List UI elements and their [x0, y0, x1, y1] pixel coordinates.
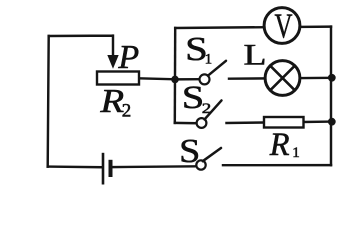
- svg-text:2: 2: [202, 101, 212, 117]
- svg-text:P: P: [117, 39, 139, 76]
- svg-text:R: R: [99, 83, 124, 120]
- svg-text:S: S: [179, 133, 200, 170]
- svg-text:1: 1: [292, 145, 300, 161]
- svg-text:V: V: [275, 7, 293, 46]
- svg-text:2: 2: [122, 101, 132, 122]
- svg-text:1: 1: [205, 52, 213, 68]
- svg-text:R: R: [269, 127, 290, 163]
- svg-text:L: L: [244, 38, 267, 71]
